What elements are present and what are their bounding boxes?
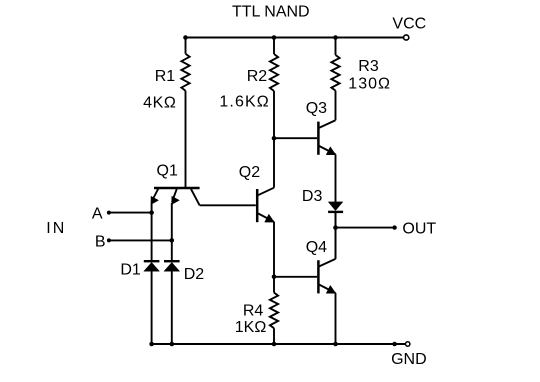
svg-text:VCC: VCC xyxy=(392,16,426,33)
svg-text:D3: D3 xyxy=(302,188,323,205)
svg-text:Q1: Q1 xyxy=(157,163,178,180)
svg-text:GND: GND xyxy=(391,351,427,368)
svg-text:R2: R2 xyxy=(247,68,268,85)
svg-text:D2: D2 xyxy=(184,266,205,283)
svg-text:IN: IN xyxy=(46,220,66,237)
svg-text:OUT: OUT xyxy=(402,221,436,238)
svg-text:A: A xyxy=(92,206,103,223)
svg-text:R3: R3 xyxy=(358,58,379,75)
svg-text:Q4: Q4 xyxy=(306,239,327,256)
svg-text:130Ω: 130Ω xyxy=(348,75,391,92)
svg-text:D1: D1 xyxy=(120,262,141,279)
svg-text:Q3: Q3 xyxy=(306,100,327,117)
svg-text:TTL NAND: TTL NAND xyxy=(232,3,310,20)
svg-text:1.6KΩ: 1.6KΩ xyxy=(219,94,269,111)
svg-text:Q2: Q2 xyxy=(239,164,260,181)
svg-text:R1: R1 xyxy=(155,68,176,85)
svg-text:R4: R4 xyxy=(243,303,264,320)
svg-text:1KΩ: 1KΩ xyxy=(235,319,267,336)
svg-text:4KΩ: 4KΩ xyxy=(143,95,176,112)
svg-text:B: B xyxy=(95,233,106,250)
